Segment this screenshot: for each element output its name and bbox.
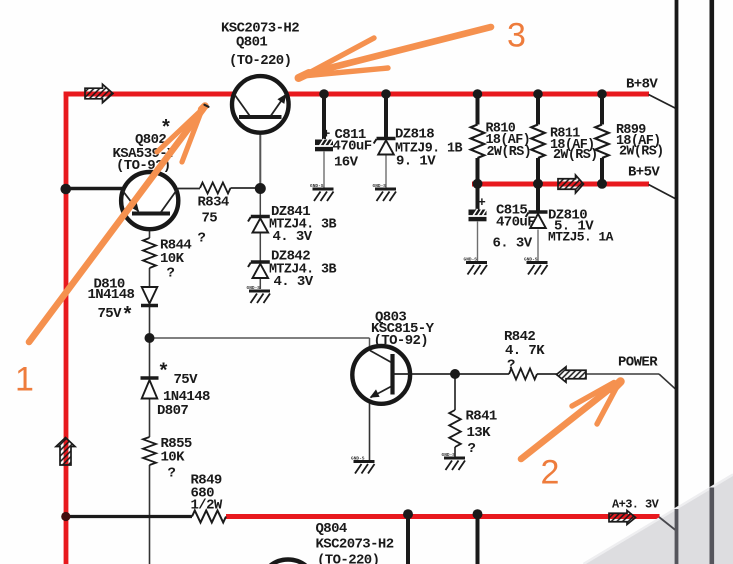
- svg-text:?: ?: [507, 358, 515, 374]
- svg-text:1: 1: [15, 361, 34, 399]
- svg-text:?: ?: [198, 231, 206, 247]
- svg-text:75V: 75V: [174, 372, 199, 388]
- svg-text:9. 1V: 9. 1V: [396, 154, 436, 170]
- svg-text:POWER: POWER: [618, 355, 658, 371]
- svg-text:DZ818: DZ818: [395, 127, 434, 143]
- svg-text:KSC2073-H2: KSC2073-H2: [316, 537, 394, 553]
- svg-text:3: 3: [507, 17, 526, 55]
- svg-text:6. 3V: 6. 3V: [493, 236, 533, 252]
- svg-text:2W(RS): 2W(RS): [553, 148, 598, 163]
- svg-text:+: +: [478, 195, 486, 210]
- svg-text:Q801: Q801: [236, 35, 267, 51]
- svg-text:470uF: 470uF: [496, 215, 535, 231]
- svg-text:?: ?: [468, 441, 476, 457]
- svg-text:75V: 75V: [98, 306, 123, 322]
- svg-text:10K: 10K: [161, 450, 186, 466]
- svg-text:*: *: [122, 305, 133, 328]
- svg-text:75: 75: [202, 211, 218, 227]
- svg-text:2: 2: [541, 454, 560, 492]
- svg-text:2W(RS): 2W(RS): [487, 145, 532, 160]
- svg-text:2W(RS): 2W(RS): [619, 145, 664, 160]
- svg-text:(TO-220): (TO-220): [317, 553, 379, 564]
- svg-text:D807: D807: [157, 403, 188, 419]
- svg-text:4. 3V: 4. 3V: [273, 229, 313, 245]
- svg-text:(TO-92): (TO-92): [374, 333, 429, 349]
- svg-text:?: ?: [168, 466, 176, 482]
- svg-text:4. 3V: 4. 3V: [274, 274, 314, 290]
- svg-text:16V: 16V: [334, 155, 359, 171]
- svg-text:Q804: Q804: [316, 521, 347, 537]
- svg-text:?: ?: [167, 266, 175, 282]
- svg-text:R841: R841: [466, 409, 497, 425]
- svg-text:B+5V: B+5V: [628, 165, 660, 181]
- svg-text:+: +: [323, 127, 331, 142]
- svg-text:B+8V: B+8V: [626, 77, 658, 93]
- svg-text:*: *: [158, 362, 169, 385]
- svg-text:1/2W: 1/2W: [191, 498, 223, 514]
- svg-text:1N4148: 1N4148: [88, 287, 135, 303]
- svg-text:MTZJ5. 1A: MTZJ5. 1A: [548, 230, 614, 245]
- svg-text:13K: 13K: [467, 425, 492, 441]
- svg-text:(TO-220): (TO-220): [229, 53, 291, 69]
- svg-text:A+3. 3V: A+3. 3V: [612, 498, 660, 512]
- svg-text:R834: R834: [198, 195, 229, 211]
- svg-text:470uF: 470uF: [333, 139, 372, 155]
